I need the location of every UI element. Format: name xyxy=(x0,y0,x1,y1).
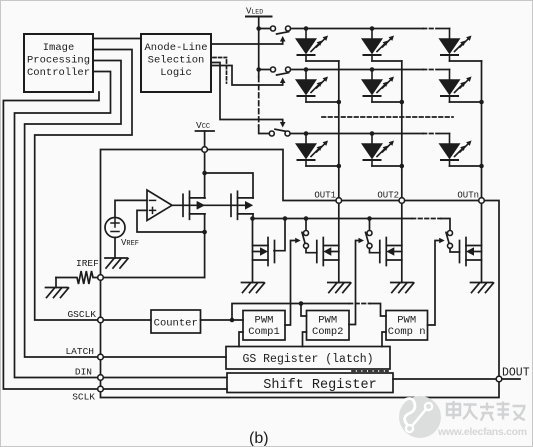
anode row1 wire xyxy=(259,28,273,30)
VLED supply bar xyxy=(246,16,272,18)
shift register box xyxy=(227,373,393,393)
transistor M3 xyxy=(253,238,275,266)
transistor M2 xyxy=(231,191,253,219)
pin DOUT xyxy=(496,376,502,382)
GSCLK wire to counter xyxy=(101,319,152,321)
pin SCLK xyxy=(98,386,104,392)
OUT1 gate wire xyxy=(306,248,317,253)
row1 anode switch xyxy=(277,32,289,34)
dashed continuation row of matrix xyxy=(322,116,453,118)
svg-text:Controller: Controller xyxy=(27,67,90,79)
LED D3n xyxy=(440,134,472,167)
node bias rail M3 gate junction xyxy=(283,216,288,221)
wire mirror rail to M2 drain xyxy=(205,173,253,198)
PWM comp2 box xyxy=(307,311,350,341)
DIN wire to shift register xyxy=(101,377,228,379)
VCC internal wire down xyxy=(204,152,206,198)
svg-text:SCLK: SCLK xyxy=(72,392,95,403)
svg-text:Image: Image xyxy=(43,42,75,54)
wire shift register to DOUT xyxy=(393,378,499,380)
pin OUT2 xyxy=(399,198,405,204)
svg-text:Comp2: Comp2 xyxy=(312,326,344,338)
VCC bar xyxy=(196,130,215,132)
pin LATCH xyxy=(98,354,104,360)
internal wire IREF pin to feedback node xyxy=(101,277,205,279)
svg-text:OUT1: OUT1 xyxy=(314,191,336,201)
node bias rail OUT1 junction xyxy=(304,216,309,221)
svg-text:DOUT: DOUT xyxy=(502,367,530,380)
ground under OUT1 xyxy=(328,283,351,293)
junction coln row3 xyxy=(479,164,484,169)
junction col1 row2 xyxy=(337,100,342,105)
LED column2 cathode line xyxy=(401,61,403,283)
wire GSCLK from controller xyxy=(35,50,132,321)
op-amp U1 xyxy=(147,190,172,221)
bias rail from mirror to output gates xyxy=(253,218,413,220)
pin OUT1 xyxy=(336,198,342,204)
anode-line selection logic box xyxy=(141,34,211,92)
LED D12 xyxy=(363,29,395,62)
anode row2 wire xyxy=(259,69,273,71)
OUT2 gate wire xyxy=(370,248,380,253)
svg-text:www.elecfans.com: www.elecfans.com xyxy=(437,426,527,438)
control wire PWMn to OUTn switch xyxy=(428,241,441,326)
control wire PWM2 to OUT2 switch xyxy=(349,241,360,325)
pin GSCLK xyxy=(98,317,104,323)
svg-text:Comp1: Comp1 xyxy=(248,326,280,338)
resistor IREF xyxy=(56,271,101,284)
row1 switch control wire from anode logic xyxy=(211,41,283,45)
wire counter to PWM comp1 xyxy=(201,319,244,321)
transistor Q-OUTn xyxy=(460,238,482,266)
voltage source VREF xyxy=(105,218,125,238)
M1 source wire down to feedback node xyxy=(204,214,206,278)
svg-text:Counter: Counter xyxy=(154,318,198,330)
row2 switch control wire from anode logic xyxy=(211,66,283,86)
node bias rail M2 junction xyxy=(250,216,255,221)
node bias rail OUT2 junction xyxy=(367,216,372,221)
watermark logo disc xyxy=(399,396,441,438)
VREF wire to ground xyxy=(114,238,116,259)
LED D11 xyxy=(297,29,329,62)
counter bus chain wire xyxy=(232,304,349,321)
OUT2 gate switch drop xyxy=(369,219,371,231)
PWM comp n box xyxy=(386,311,428,341)
svg-text:Comp n: Comp n xyxy=(388,326,426,338)
junction col2 row2 xyxy=(400,100,405,105)
node counter output junction xyxy=(230,318,235,323)
watermark chinese characters xyxy=(447,401,526,421)
chip boundary xyxy=(101,150,500,398)
svg-text:LATCH: LATCH xyxy=(65,346,94,357)
wire controller to anode logic xyxy=(93,38,141,40)
svg-text:GS Register (latch): GS Register (latch) xyxy=(242,353,373,366)
GS register latch box xyxy=(226,347,390,370)
row2 anode switch xyxy=(277,73,289,75)
svg-text:Processing: Processing xyxy=(27,55,90,67)
M2 source wire to bias rail xyxy=(252,214,254,219)
DOUT external stub xyxy=(499,378,520,380)
image processing controller box xyxy=(24,34,93,92)
svg-text:(b): (b) xyxy=(249,430,269,447)
VCC wire down to pin xyxy=(204,131,206,150)
GS register to PWM comp1 elbow xyxy=(239,332,243,347)
row3 switch control wire from anode logic xyxy=(211,63,283,124)
dashed bus GS to shift register xyxy=(352,370,388,372)
PWM comp1 box xyxy=(243,311,285,341)
ground under OUT2 xyxy=(391,283,414,293)
svg-text:DIN: DIN xyxy=(75,367,92,378)
LED D22 xyxy=(363,70,395,103)
LED D1n xyxy=(440,29,472,62)
OUT2 switch xyxy=(366,232,369,243)
ground under M3 xyxy=(242,283,265,293)
VLED rail elbow to row3 switch xyxy=(259,126,272,134)
OUTn gate wire xyxy=(450,248,460,252)
VLED rail junction row1 xyxy=(256,26,261,31)
SCLK wire to shift register xyxy=(101,388,228,390)
ground under OUTn xyxy=(471,283,494,293)
node chain branch junction xyxy=(299,301,304,306)
reference transistor M3 branch xyxy=(252,219,254,283)
svg-text:Anode-Line: Anode-Line xyxy=(144,42,207,54)
GS register to PWM comp n elbow xyxy=(382,332,386,347)
transistor M1 xyxy=(183,191,205,219)
svg-text:VLED: VLED xyxy=(246,7,263,17)
ground under VREF xyxy=(105,258,128,268)
op-amp minus input wire to VREF xyxy=(115,200,147,217)
svg-text:Logic: Logic xyxy=(160,67,192,79)
svg-text:PWM: PWM xyxy=(318,315,337,327)
svg-text:GSCLK: GSCLK xyxy=(67,309,96,320)
svg-text:Selection: Selection xyxy=(148,55,205,67)
svg-text:VCC: VCC xyxy=(196,120,210,131)
VLED rail junction row2 xyxy=(256,67,261,72)
row3 anode switch xyxy=(275,129,287,131)
VLED rail wire xyxy=(258,17,260,78)
svg-text:VREF: VREF xyxy=(121,238,139,248)
LATCH wire to GS register xyxy=(101,356,227,358)
svg-text:OUT2: OUT2 xyxy=(377,191,399,201)
pin VCC xyxy=(202,147,208,153)
wire LATCH from controller xyxy=(25,61,121,358)
control wire PWM1 to OUT1 switch xyxy=(285,241,296,326)
dashed control stub for hidden rows xyxy=(213,57,227,59)
junction coln row2 xyxy=(479,100,484,105)
counter box xyxy=(151,310,201,333)
OUT1 gate switch drop xyxy=(305,219,307,231)
pin IREF xyxy=(98,275,104,281)
svg-text:PWM: PWM xyxy=(255,315,274,327)
op-amp output / gate line to M1 M2 xyxy=(172,204,248,206)
junction col1 row3 xyxy=(337,164,342,169)
LED column-n cathode line xyxy=(481,61,483,283)
wire SCLK from controller xyxy=(3,92,100,389)
svg-text:PWM: PWM xyxy=(397,315,416,327)
wire chain branch to PWM comp2 xyxy=(301,304,307,317)
wire DIN from controller xyxy=(15,72,111,378)
LED column1 cathode line xyxy=(338,61,340,283)
wire resistor to ground xyxy=(55,278,57,288)
LED D31 xyxy=(297,134,329,167)
LED D2n xyxy=(440,70,472,103)
anode row3 wire xyxy=(288,133,424,135)
transistor Q-OUT1 xyxy=(317,238,339,266)
pin OUTn xyxy=(479,198,485,204)
VLED rail dashed segment xyxy=(258,77,260,126)
svg-text:IREF: IREF xyxy=(76,258,99,269)
LED D21 xyxy=(297,70,329,103)
transistor Q-OUT2 xyxy=(380,238,402,266)
svg-text:Shift Register: Shift Register xyxy=(263,378,376,393)
OUTn switch xyxy=(446,232,449,243)
node VCC-mirror junction xyxy=(202,171,207,176)
OUT1 switch xyxy=(302,232,305,243)
ground at IREF xyxy=(46,288,69,298)
GS register to PWM comp2 elbow xyxy=(303,332,307,347)
pin DIN xyxy=(98,375,104,381)
op-amp plus input feedback wire xyxy=(137,210,205,232)
LED D32 xyxy=(363,134,395,167)
node feedback junction xyxy=(202,230,207,235)
svg-text:OUTn: OUTn xyxy=(457,191,479,201)
junction col2 row3 xyxy=(400,164,405,169)
